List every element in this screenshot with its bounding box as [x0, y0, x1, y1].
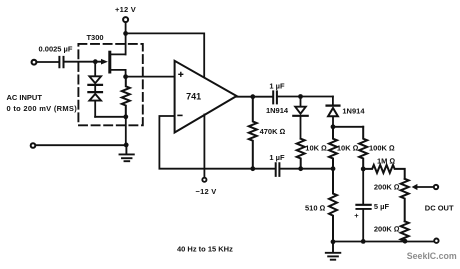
svg-text:0.0025 µF: 0.0025 µF [39, 44, 73, 53]
wire op-amp output [237, 96, 273, 98]
svg-text:200K Ω: 200K Ω [374, 225, 400, 234]
wire between clamp diodes [94, 85, 96, 91]
svg-text:1 µF: 1 µF [269, 82, 285, 91]
wire capacitor to gate [65, 61, 101, 63]
node rail end 510 top [331, 166, 336, 171]
DC OUT top terminal [434, 185, 438, 189]
svg-text:1M Ω: 1M Ω [377, 157, 396, 166]
wire input to capacitor [37, 61, 58, 63]
svg-text:T300: T300 [86, 33, 103, 42]
diode D2 (clamp, cathode up) [88, 92, 102, 101]
wiper arrow [412, 184, 418, 190]
capacitor C3 1uF (feedback row) [276, 163, 280, 176]
node bottom junction in box [123, 114, 128, 119]
node J filter [361, 167, 366, 172]
wire node J to C4 [362, 169, 364, 204]
capacitor C2 1uF [273, 91, 277, 103]
svg-text:200K Ω: 200K Ω [374, 182, 400, 191]
wire D4 to node [332, 117, 334, 127]
node gate junction [93, 59, 98, 64]
svg-text:DC OUT: DC OUT [425, 204, 454, 213]
svg-text:−12 V: −12 V [195, 187, 216, 196]
svg-text:SeekIC.com: SeekIC.com [407, 251, 457, 261]
resistor R1 470K [249, 97, 257, 169]
node rect diode A top [298, 94, 303, 99]
DC OUT bottom terminal [434, 239, 438, 243]
wire box bottom to ground rail [125, 117, 127, 145]
wire op-amp V- pin [203, 115, 205, 178]
resistor R8 510 [329, 169, 337, 242]
diode D1 (gate clamp, cathode down) [88, 76, 102, 85]
-12V supply terminal [202, 178, 206, 182]
diode D3 1N914 (down) [293, 107, 307, 116]
potentiometer R6 200K [401, 179, 409, 222]
wire +12V vertical [125, 22, 127, 54]
wire gate node to D1 [94, 62, 96, 76]
svg-text:100K Ω: 100K Ω [369, 144, 395, 153]
wire op-amp minus feedback [159, 116, 274, 169]
svg-text:AC INPUT: AC INPUT [7, 93, 43, 102]
wire node to D3 [300, 97, 302, 106]
diode D4 1N914 (up) [327, 106, 340, 117]
resistor R3 10K (B) [329, 127, 337, 169]
resistor R2 10K (A) [297, 139, 305, 169]
svg-text:0 to 200 mV (RMS): 0 to 200 mV (RMS) [7, 104, 78, 113]
node source junction [123, 74, 128, 79]
wire rail corner to D4 [332, 97, 334, 105]
wire diode chain to bottom [94, 102, 96, 117]
capacitor C1 0.0025uF [59, 57, 63, 67]
node 470K bottom [250, 166, 255, 171]
wire D3 to 10K [300, 116, 302, 139]
wire ground rail [333, 241, 433, 243]
wire C4 to ground rail [362, 210, 364, 242]
node 10K A bottom [298, 166, 303, 171]
op-amp U1 741 [175, 61, 237, 133]
svg-text:470K Ω: 470K Ω [260, 127, 286, 136]
svg-text:40 Hz to 15 KHz: 40 Hz to 15 KHz [177, 245, 233, 254]
wire source to op-amp + input [126, 76, 175, 78]
node 200K bottom [403, 239, 408, 244]
svg-text:741: 741 [186, 92, 201, 102]
node output junction [250, 94, 255, 99]
svg-text:10K Ω: 10K Ω [337, 144, 359, 153]
transistor T300 JFET [101, 52, 126, 76]
node ground rail left [331, 239, 336, 244]
wire to diode chain bottom [95, 116, 126, 118]
capacitor C4 5uF electrolytic [356, 205, 370, 209]
node diode B bottom [331, 124, 336, 129]
wire middle rail right of cap [281, 168, 333, 170]
ground input [120, 145, 134, 161]
resistor R7 200K [401, 221, 409, 241]
svg-text:10K Ω: 10K Ω [305, 144, 327, 153]
svg-text:1N914: 1N914 [266, 106, 289, 115]
svg-text:1N914: 1N914 [342, 107, 365, 116]
wire to 100K [333, 126, 363, 128]
resistor source bias (unlabeled) [122, 77, 130, 117]
resistor R4 100K [359, 127, 367, 169]
wire cap to diode node [278, 96, 333, 98]
svg-text:+: + [354, 211, 359, 220]
node +12V junction [123, 31, 128, 36]
svg-text:5 µF: 5 µF [374, 202, 390, 211]
svg-text:+12 V: +12 V [115, 5, 136, 14]
resistor R5 1M horizontal [363, 165, 405, 179]
AC input lower terminal [31, 143, 36, 148]
+12V supply terminal [123, 17, 128, 22]
node input ground junction [124, 143, 129, 148]
svg-text:510 Ω: 510 Ω [305, 204, 326, 213]
dashed enclosure T300 [78, 44, 142, 125]
wire wiper to DC OUT [417, 186, 433, 188]
AC input upper terminal [32, 60, 37, 65]
ground main [326, 242, 341, 260]
wire +12V to op-amp V+ [126, 33, 205, 78]
wire lower input to ground node [36, 144, 127, 146]
node 5uF bottom [361, 239, 366, 244]
svg-text:1 µF: 1 µF [269, 153, 285, 162]
